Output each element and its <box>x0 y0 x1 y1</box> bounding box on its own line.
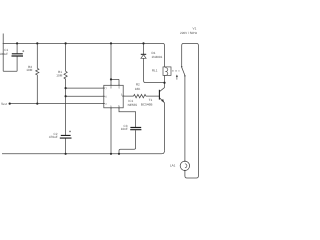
svg-text:NE555: NE555 <box>128 103 138 107</box>
svg-text:100uF: 100uF <box>0 52 8 56</box>
svg-text:V1: V1 <box>193 26 197 30</box>
svg-text:R2: R2 <box>136 82 140 86</box>
svg-text:1N4001: 1N4001 <box>152 55 163 59</box>
svg-text:LA1: LA1 <box>170 164 176 168</box>
svg-text:RL1: RL1 <box>152 69 158 73</box>
svg-text:BC546B: BC546B <box>141 103 153 107</box>
svg-text:470uF: 470uF <box>49 135 58 139</box>
svg-text:10M: 10M <box>26 68 32 72</box>
svg-text:Test: Test <box>1 102 7 106</box>
svg-text:220V / 50Hz: 220V / 50Hz <box>180 31 197 35</box>
svg-text:10nF: 10nF <box>121 127 128 131</box>
svg-text:10M: 10M <box>56 74 62 78</box>
svg-text:18K: 18K <box>135 87 141 91</box>
svg-text:T1: T1 <box>149 98 153 102</box>
